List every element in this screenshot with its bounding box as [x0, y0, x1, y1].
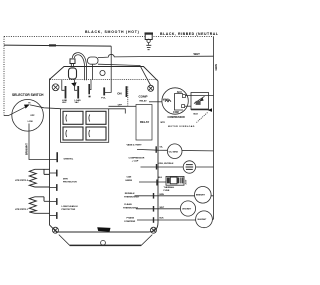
wire row1: [137, 149, 214, 151]
terminal stack circle: [183, 161, 195, 173]
left terminal L2: [50, 172, 57, 174]
left terminal L4: [50, 201, 57, 203]
svg-text:PHASE: PHASE: [127, 217, 135, 220]
panel dashed line: [50, 79, 158, 81]
terminal T2: [75, 80, 78, 91]
screw BR: [151, 227, 157, 233]
switch bar: [125, 86, 127, 97]
wiper: [9, 107, 25, 115]
svg-text:HTR PRTR-1: HTR PRTR-1: [15, 209, 29, 211]
cord loop: [72, 53, 86, 81]
svg-text:+ CAP: + CAP: [132, 160, 139, 163]
terminal bar row4: [153, 193, 155, 199]
svg-text:BLACK, SMOOTH (HOT): BLACK, SMOOTH (HOT): [85, 30, 140, 34]
cord lower line to ground screw: [98, 64, 151, 85]
svg-text:HTR PRTR-2: HTR PRTR-2: [15, 180, 29, 182]
compressor M1: [162, 88, 188, 114]
svg-text:GRN/YEL: GRN/YEL: [64, 158, 74, 160]
terminal T1: [62, 80, 65, 91]
svg-text:VAC: VAC: [62, 101, 67, 104]
svg-text:SELECTOR SWITCH: SELECTOR SWITCH: [12, 93, 44, 97]
flange hole: [101, 240, 106, 245]
selector switch S1: [12, 100, 44, 132]
wire compressor to overload bottom: [185, 105, 191, 107]
left terminal L5: [50, 215, 57, 217]
svg-text:BRN/WHT: BRN/WHT: [196, 195, 206, 197]
terminal T4: [103, 87, 105, 95]
svg-text:COMP: COMP: [139, 94, 148, 98]
resistor R2: [29, 197, 49, 214]
flange: [59, 235, 153, 246]
svg-text:GRN: GRN: [214, 64, 218, 70]
arrow overload: [208, 108, 212, 112]
svg-text:WHT: WHT: [160, 207, 165, 209]
cord grommet: [70, 59, 75, 64]
wire right bus neutral: [213, 36, 215, 219]
svg-text:BLACK, RIBBED (NEUTRAL): BLACK, RIBBED (NEUTRAL): [160, 32, 218, 36]
svg-text:BRN: BRN: [160, 194, 165, 196]
svg-text:RELAY: RELAY: [140, 99, 148, 102]
switch dashed actuator: [127, 87, 129, 107]
overload switch: [194, 96, 205, 103]
wire selector to grid: [30, 105, 61, 109]
wire hot drop: [105, 46, 111, 92]
svg-text:OFF: OFF: [30, 115, 35, 117]
svg-text:LOW/CLEAN HI: LOW/CLEAN HI: [62, 205, 78, 208]
wire row6: [137, 219, 196, 221]
left terminal L1: [56, 152, 58, 162]
svg-text:BRN/WHT: BRN/WHT: [26, 143, 29, 155]
screw TL: [52, 84, 59, 91]
terminal bar row3: [156, 180, 158, 186]
wire cord into unit: [92, 64, 94, 79]
wire neutral horizontal: [98, 54, 214, 57]
svg-text:COMPRESSOR: COMPRESSOR: [168, 116, 186, 119]
svg-text:ORG/WHT: ORG/WHT: [182, 208, 192, 210]
svg-text:WHT: WHT: [194, 52, 201, 56]
svg-text:OIL SENS: OIL SENS: [169, 151, 179, 153]
wire compressor to overload top: [185, 95, 213, 97]
unit outline: [50, 67, 159, 233]
svg-text:BLK/WHT: BLK/WHT: [198, 219, 208, 221]
leader dashed: [197, 113, 208, 123]
svg-text:BLK: BLK: [194, 114, 199, 116]
svg-text:THERMAL: THERMAL: [164, 186, 175, 189]
wire selector down: [29, 124, 57, 160]
left terminal L3: [50, 187, 57, 189]
svg-text:COMPRSR: COMPRSR: [124, 221, 136, 223]
svg-text:COM: COM: [173, 111, 179, 114]
wirenut row4: [195, 187, 212, 204]
svg-text:FUSE: FUSE: [164, 190, 170, 192]
svg-text:PROTECTOR: PROTECTOR: [63, 182, 77, 184]
screw BL: [52, 227, 58, 233]
svg-text:ORG, WHT/BLK: ORG, WHT/BLK: [159, 163, 174, 165]
terminal bar row1: [155, 146, 157, 153]
resistor R1: [29, 169, 49, 187]
svg-text:THERMOSTAT: THERMOSTAT: [123, 207, 139, 210]
svg-text:BLK: BLK: [160, 218, 165, 220]
wire row4: [135, 195, 214, 197]
svg-text:250V: 250V: [186, 179, 188, 184]
screw top mid: [100, 70, 105, 75]
svg-text:VAC: VAC: [75, 101, 80, 104]
thermal fuse box: [166, 176, 188, 185]
svg-text:CAN: CAN: [127, 176, 132, 179]
logo: [97, 227, 110, 231]
heater grid block: [61, 109, 126, 143]
wirenut row6: [196, 211, 213, 228]
wire row5: [136, 208, 181, 210]
wire row3: [139, 181, 166, 183]
terminal marks: [182, 95, 185, 98]
svg-text:BLK: BLK: [158, 177, 163, 179]
svg-text:MTR: MTR: [63, 179, 68, 181]
terminal T3 cord: [90, 80, 91, 90]
compressor winding bracket: [174, 94, 183, 110]
main winding squiggle: [165, 100, 171, 102]
relay box K1: [136, 105, 152, 141]
overload box OL1: [191, 93, 209, 110]
wire switch to grid: [109, 105, 128, 107]
cord clamp: [88, 57, 99, 64]
svg-text:RELAY: RELAY: [140, 120, 149, 124]
terminal bar row2: [156, 164, 158, 170]
fuse capsule F1: [69, 68, 77, 79]
wire switch to relay: [128, 105, 136, 107]
svg-text:VANE & TWHT: VANE & TWHT: [127, 144, 143, 147]
svg-text:MAIN: MAIN: [163, 98, 169, 101]
arrow fuse to terminal: [71, 82, 76, 87]
wire hot top left: [4, 45, 111, 46]
page border dotted top: [4, 35, 214, 37]
wire border to wiper: [4, 115, 9, 117]
svg-text:AUX: AUX: [177, 91, 182, 94]
wirenut row5: [180, 201, 195, 216]
svg-text:THERMOSTAT: THERMOSTAT: [124, 195, 140, 198]
plug P1: [145, 34, 154, 50]
svg-text:RED/BLK: RED/BLK: [125, 193, 135, 195]
svg-text:PROTECTOR: PROTECTOR: [62, 209, 76, 211]
svg-text:POL: POL: [101, 98, 106, 100]
wirenut oil sensor: [167, 144, 182, 159]
terminal bar row6: [153, 217, 155, 223]
svg-text:CLEAN: CLEAN: [124, 203, 132, 206]
svg-text:MOTOR OVERLOAD: MOTOR OVERLOAD: [168, 125, 195, 128]
svg-text:HERM: HERM: [126, 180, 133, 182]
svg-text:COMPRESSOR: COMPRESSOR: [129, 158, 145, 160]
junction blob on hot wire: [49, 44, 56, 46]
wire row2: [141, 166, 214, 168]
svg-text:MTR: MTR: [161, 122, 166, 124]
page border dotted left: [3, 36, 5, 115]
screw TR: [148, 85, 154, 91]
svg-text:ON: ON: [117, 91, 121, 95]
terminal bar row5: [153, 206, 155, 212]
wire comp to compressor: [149, 101, 162, 103]
